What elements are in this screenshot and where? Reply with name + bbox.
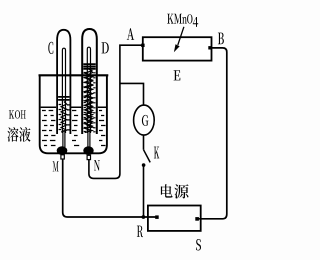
terminal square below M — [61, 155, 64, 159]
hanzi ye — [19, 127, 30, 142]
switch K blade — [144, 150, 151, 163]
liquid hatching dashes — [42, 73, 106, 146]
power source box 电源 — [148, 206, 201, 231]
wire from M to power source R terminal — [63, 159, 156, 217]
KMnO4 letter M — [174, 14, 182, 24]
hanzi rong — [7, 127, 18, 142]
liquid surface line — [41, 106, 107, 108]
power source right terminal S wire up to B — [197, 48, 227, 219]
label B — [218, 33, 224, 45]
KMnO4 subscript 4 — [193, 17, 198, 27]
second coil strand in tube D — [87, 71, 92, 129]
label R — [137, 226, 143, 238]
coiled electrode (zigzag) in tube C — [61, 102, 66, 133]
label M electrode — [53, 161, 59, 171]
coiled electrode (zigzag) in tube D — [85, 69, 92, 133]
test tube C (gas collecting tube, left) — [57, 30, 70, 134]
hanzi dian — [161, 184, 173, 197]
electrode hairpin in tube C — [62, 48, 65, 133]
label N electrode — [94, 160, 100, 171]
galvanometer G body — [134, 105, 155, 135]
terminal square below N — [87, 155, 90, 159]
liquid level band in tube D — [83, 64, 95, 69]
KMnO4 strip box E — [143, 37, 212, 60]
wire G to switch — [143, 135, 145, 150]
KOH letter K — [9, 110, 14, 118]
KOH letter O — [15, 110, 20, 118]
junction dot at switch branch — [142, 215, 146, 219]
label D — [102, 42, 109, 53]
KMnO4 letter K — [167, 14, 174, 24]
wire from N up to node A — [89, 45, 143, 178]
power source right terminal square — [195, 217, 199, 221]
KOH letter H — [21, 110, 26, 118]
branch wire from node to galvanometer — [120, 83, 144, 105]
label E — [174, 70, 181, 80]
container top rim — [39, 74, 109, 76]
power source left terminal R — [155, 215, 159, 219]
electrode seal N (black blob) — [83, 146, 93, 155]
electrolysis cell container (trough with KOH solution) — [40, 76, 107, 153]
electrode seal M (black blob) — [57, 146, 68, 155]
hanzi yuan — [174, 184, 188, 198]
wire switch to bottom junction — [143, 166, 145, 218]
galvanometer letter G — [142, 115, 149, 126]
electrode stems to seals — [63, 130, 90, 147]
label S — [196, 239, 201, 251]
label C — [48, 42, 53, 54]
box E left terminal A — [141, 44, 144, 47]
box E right terminal B — [208, 46, 211, 49]
KMnO4 letter O — [187, 14, 192, 23]
switch K contact dot — [142, 163, 146, 167]
label K switch — [154, 147, 159, 159]
KMnO4 letter n — [182, 17, 187, 24]
liquid level band in tube C — [58, 97, 69, 100]
electrode hairpin in tube D — [87, 47, 90, 133]
test tube D (gas collecting tube, right) — [82, 29, 97, 134]
KMnO4 pointer arrow — [178, 27, 184, 45]
label A — [127, 28, 134, 40]
